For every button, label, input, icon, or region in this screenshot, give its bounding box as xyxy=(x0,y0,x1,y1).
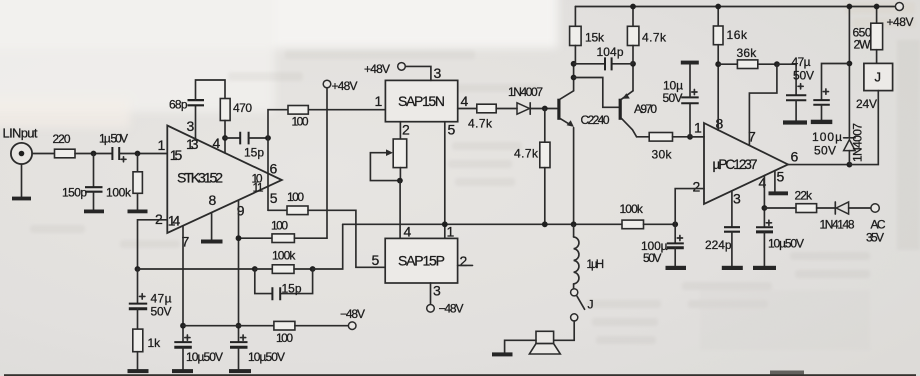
wire pot to SAP15P pin4 xyxy=(399,181,401,239)
ground (10u pin9) xyxy=(229,369,251,373)
svg-text:100k: 100k xyxy=(272,248,296,262)
wire 15k to rail xyxy=(574,7,576,27)
node base C2240 xyxy=(542,106,548,112)
wire jack to R 220 xyxy=(32,153,54,155)
wire C2240 collector up xyxy=(573,64,575,91)
wire 4.7k to diode xyxy=(496,108,517,110)
wire 15p to node C xyxy=(249,137,268,139)
svg-text:1N4007: 1N4007 xyxy=(508,85,543,99)
wire node to 36k xyxy=(718,63,737,65)
svg-text:50V: 50V xyxy=(793,69,814,83)
svg-text:1µH: 1µH xyxy=(587,259,605,271)
capacitor 47u 50V xyxy=(786,55,814,120)
top supply rail xyxy=(575,6,895,8)
node collector/104p xyxy=(571,61,577,67)
resistor 1k xyxy=(133,329,161,352)
capacitor 10u50V (pin4) xyxy=(756,220,804,266)
svg-text:LINput: LINput xyxy=(3,126,38,141)
node pin1 xyxy=(687,134,693,140)
resistor 100 (pin5 out) xyxy=(287,190,308,215)
wire pin3 to 224p xyxy=(731,191,733,227)
svg-text:50V: 50V xyxy=(151,305,172,319)
wire pin9 column xyxy=(238,200,240,342)
svg-text:4: 4 xyxy=(461,93,469,109)
node pot wiper xyxy=(397,178,403,184)
input jack LINput xyxy=(3,126,38,165)
ground (100u relay) xyxy=(811,120,833,124)
svg-text:104p: 104p xyxy=(597,45,624,59)
terminal -48V (STK) xyxy=(340,307,365,330)
pin 5 label (SAP15P) xyxy=(372,252,380,268)
capacitor 100u 50V (relay) xyxy=(812,89,842,158)
ground (10u pin1, above) xyxy=(681,61,699,65)
wire fb row xyxy=(138,268,255,270)
svg-text:15k: 15k xyxy=(585,31,605,45)
op-amp STK3152 xyxy=(155,118,282,249)
svg-text:10µ50V: 10µ50V xyxy=(248,350,285,364)
wire SAP15N pin3 to +48V xyxy=(405,66,431,80)
wire C2240 emitter to bus xyxy=(573,128,575,225)
wire A970 base link xyxy=(574,78,619,108)
svg-text:24V: 24V xyxy=(856,97,877,111)
svg-text:1N4007: 1N4007 xyxy=(851,123,865,162)
wire -48V row xyxy=(183,325,274,327)
svg-text:50V: 50V xyxy=(663,91,683,105)
protection IC uPC1237 xyxy=(693,116,799,207)
wire 150p to ground xyxy=(93,192,95,210)
node fb left xyxy=(135,266,141,272)
svg-text:15: 15 xyxy=(170,147,183,163)
wire uPC pin1 xyxy=(690,136,704,138)
wire cap to STK pin1 xyxy=(119,153,167,155)
ground (224p) xyxy=(722,266,743,270)
resistor 16k xyxy=(713,26,748,45)
svg-text:4.7k: 4.7k xyxy=(642,31,667,45)
speaker xyxy=(529,331,560,354)
svg-text:50V: 50V xyxy=(643,251,662,265)
svg-text:1: 1 xyxy=(375,93,383,109)
svg-text:STK3152: STK3152 xyxy=(177,170,223,186)
svg-text:4: 4 xyxy=(213,135,221,151)
svg-text:1µ 50V: 1µ 50V xyxy=(99,132,128,146)
wire fb to 100k xyxy=(255,268,272,270)
wire relay box to pin6 node xyxy=(849,91,878,165)
ground (150p) xyxy=(84,210,104,214)
svg-text:1N4148: 1N4148 xyxy=(820,218,855,232)
svg-text:100: 100 xyxy=(271,219,288,233)
wire 100u branch xyxy=(822,64,850,100)
terminal AC 35V xyxy=(866,204,886,245)
terminal +48V (SAP15N) xyxy=(364,62,405,76)
wire node B down to 100k xyxy=(137,154,139,172)
ground (100k input) xyxy=(128,210,148,214)
wire SAP15P pin2 stub xyxy=(458,264,473,266)
transistor Q2 A970 xyxy=(620,91,657,137)
capacitor 47u 50V xyxy=(129,292,172,319)
wire diode to C2240 base xyxy=(530,108,557,110)
node pin9 rail xyxy=(236,235,242,241)
node E (bus right) xyxy=(672,221,678,227)
wire pin6 to relay node xyxy=(788,164,849,166)
svg-text:13: 13 xyxy=(186,136,199,152)
wire 650 to relay box xyxy=(876,50,878,64)
wire 100 to -48V terminal xyxy=(295,325,349,327)
wire 4.7k to bus xyxy=(544,168,546,225)
node pin4 xyxy=(222,135,228,141)
wire 100 out to SAP15P pin5 path xyxy=(308,210,385,267)
svg-text:3: 3 xyxy=(187,118,195,134)
pin 3 label (SAP15N) xyxy=(434,65,442,81)
svg-text:SAP15P: SAP15P xyxy=(398,253,445,269)
svg-text:1k: 1k xyxy=(148,336,162,350)
svg-text:68p: 68p xyxy=(169,98,188,112)
svg-text:1: 1 xyxy=(447,224,455,240)
relay J xyxy=(856,63,893,111)
ground (input jack) xyxy=(12,197,31,201)
svg-text:4.7k: 4.7k xyxy=(468,117,493,131)
svg-text:5: 5 xyxy=(270,190,278,206)
svg-text:1: 1 xyxy=(158,137,166,153)
capacitor 68p xyxy=(169,98,204,112)
svg-text:8: 8 xyxy=(716,116,724,132)
wire pin2 path xyxy=(675,189,704,225)
svg-text:µPC1237: µPC1237 xyxy=(713,157,758,172)
svg-text:2: 2 xyxy=(402,122,410,138)
svg-text:4: 4 xyxy=(759,175,767,191)
pin 3 label (SAP15P) xyxy=(433,283,441,299)
node F (36k/47u/pin7) xyxy=(774,61,780,67)
ground (100u bus) xyxy=(666,266,687,270)
svg-text:15p: 15p xyxy=(244,145,264,159)
terminal +48V (STK) xyxy=(323,79,357,93)
resistor 4.7k (driver) xyxy=(468,104,496,130)
svg-text:+48V: +48V xyxy=(887,15,914,29)
capacitor 1u 50V xyxy=(99,132,128,162)
svg-text:3: 3 xyxy=(434,65,442,81)
resistor 100 (-48V) xyxy=(274,321,295,345)
wire pin4 column xyxy=(763,176,765,227)
pin 1 label (SAP15P) xyxy=(447,224,455,240)
node emitter/104p xyxy=(630,61,636,67)
scan line bottom edge xyxy=(4,374,916,376)
capacitor 100u 50V (bus) xyxy=(641,224,684,265)
wire 15k to node xyxy=(574,46,576,64)
wire pin7 column xyxy=(182,226,184,342)
potentiometer (bias) xyxy=(370,139,406,181)
svg-text:−48V: −48V xyxy=(340,307,365,321)
svg-text:35V: 35V xyxy=(866,231,884,245)
wire pin1 node up to 10u xyxy=(689,103,691,137)
capacitor 10u50V (pin9) xyxy=(230,335,285,364)
svg-text:14: 14 xyxy=(168,213,181,229)
svg-text:11: 11 xyxy=(253,181,264,195)
svg-text:C2240: C2240 xyxy=(581,113,610,127)
svg-text:50V: 50V xyxy=(814,144,836,158)
svg-text:5: 5 xyxy=(448,122,456,138)
node D (fb right) xyxy=(310,266,316,272)
node C (output col top) xyxy=(265,135,271,141)
wire 47u branch (pin2/14) xyxy=(137,269,139,303)
capacitor 10u 50V (pin1) xyxy=(663,65,699,106)
node pin9/-48V row xyxy=(236,323,242,329)
svg-text:16k: 16k xyxy=(727,28,749,42)
svg-text:5: 5 xyxy=(777,169,785,185)
wire 220 to cap 1u xyxy=(75,153,112,155)
wire node C down through pins 6,5 xyxy=(267,138,269,210)
svg-text:36k: 36k xyxy=(737,46,758,60)
resistor 100 (top feed) xyxy=(288,106,309,129)
ground (10u pin4) xyxy=(753,266,776,270)
inductor 1uH xyxy=(574,224,604,284)
wire 16k column / pin8 xyxy=(717,7,719,27)
wire 100k to node D xyxy=(294,268,313,270)
wire pin8 to ground xyxy=(211,213,213,240)
node rail/650 xyxy=(874,4,880,10)
wire 47u to 1k xyxy=(137,309,139,329)
node bus/emitter/coil xyxy=(571,221,577,227)
wire speaker to ground xyxy=(505,340,536,352)
svg-text:2: 2 xyxy=(460,253,468,269)
node rail/16k xyxy=(715,4,721,10)
svg-text:3: 3 xyxy=(733,191,741,207)
wire 10u to ground xyxy=(238,347,240,369)
wire SAP15P pin3 to -48V xyxy=(430,283,432,305)
svg-text:J: J xyxy=(588,298,594,312)
svg-text:100k: 100k xyxy=(620,202,644,216)
switch J xyxy=(571,284,594,321)
svg-text:+48V: +48V xyxy=(332,79,358,93)
wire node A down to 150p xyxy=(93,154,95,188)
svg-text:6: 6 xyxy=(270,161,278,177)
pin 5 label (SAP15N) xyxy=(448,122,456,138)
capacitor 10u50V (pin7) xyxy=(174,335,223,364)
ground (speaker) xyxy=(492,352,513,356)
node collector/A970 base tap xyxy=(571,75,577,81)
wire A970 emitter up xyxy=(632,64,634,91)
wire pin9 row to 100 xyxy=(239,237,273,239)
capacitor 15p (feedback) loop xyxy=(255,269,313,300)
svg-text:3: 3 xyxy=(433,283,441,299)
node A (150p tap) xyxy=(91,151,97,157)
output bus xyxy=(343,223,622,225)
resistor 22k xyxy=(795,189,817,213)
resistor 30k xyxy=(649,133,672,162)
resistor 470 xyxy=(220,99,252,121)
capacitor 104p xyxy=(574,45,633,70)
svg-text:47µ: 47µ xyxy=(151,292,172,306)
wire 10u to ground xyxy=(182,347,184,369)
ground (1k) xyxy=(128,369,149,373)
svg-text:8: 8 xyxy=(209,192,217,208)
wire SAP15N pin4 to 4.7k xyxy=(458,108,477,110)
wire pin7 path xyxy=(749,64,777,145)
svg-text:100: 100 xyxy=(292,115,309,129)
wire node F to 47u xyxy=(777,64,796,95)
svg-text:2W: 2W xyxy=(854,38,872,52)
capacitor 15p (pin4) xyxy=(240,132,264,160)
wire 16k to pin8 xyxy=(717,45,719,131)
wire 4.7k to node xyxy=(632,46,634,64)
resistor 650 2W xyxy=(853,23,883,51)
diode 1N4007 (bias) xyxy=(508,85,543,114)
wire 100 to +48V rail xyxy=(294,237,327,239)
svg-text:10µ50V: 10µ50V xyxy=(768,237,804,251)
node bus/SAP pins xyxy=(442,221,448,227)
wire pin3 to 68p xyxy=(195,106,197,140)
svg-text:SAP15N: SAP15N xyxy=(398,93,445,109)
wire 100k to node E xyxy=(644,223,676,225)
diode 1N4007 (relay) xyxy=(844,123,865,165)
wire pin5 stub to ground xyxy=(774,171,776,192)
svg-text:220: 220 xyxy=(53,132,71,146)
svg-text:30k: 30k xyxy=(652,148,673,162)
svg-text:1: 1 xyxy=(694,120,702,136)
wire relay column (rail to diode) xyxy=(848,7,850,139)
wire 22k to diode xyxy=(817,207,836,209)
resistor 220 xyxy=(53,132,76,158)
wire 650 to rail xyxy=(876,7,878,24)
svg-text:100: 100 xyxy=(276,331,293,345)
pin 4 label (SAP15P) xyxy=(404,224,412,240)
wire pin4 stub xyxy=(224,138,226,153)
wire node C up and right (100 feed) xyxy=(268,110,288,138)
capacitor 224p xyxy=(705,227,740,266)
wire 4.7k vertical branch xyxy=(544,109,546,143)
svg-text:100: 100 xyxy=(287,190,304,204)
wire 30k to uPC pin1 xyxy=(673,136,705,138)
node pin7/-48V row xyxy=(180,323,186,329)
wire switch to speaker xyxy=(554,321,575,340)
wire 22k row xyxy=(764,207,796,209)
svg-text:6: 6 xyxy=(791,149,799,165)
svg-text:+48V: +48V xyxy=(364,62,390,76)
white scan areas top-left xyxy=(0,0,558,128)
svg-text:10µ50V: 10µ50V xyxy=(186,350,223,364)
transistor Q1 C2240 xyxy=(559,91,610,127)
svg-text:47µ: 47µ xyxy=(792,55,811,69)
capacitor 150p xyxy=(62,186,103,200)
resistor 4.7k (emitter) xyxy=(514,142,550,167)
wire SAP15N pin5 to bus xyxy=(444,122,446,239)
svg-text:100µ: 100µ xyxy=(812,130,842,144)
wire 68p feedback loop top xyxy=(196,80,226,100)
svg-text:4.7k: 4.7k xyxy=(514,147,539,161)
svg-text:15p: 15p xyxy=(282,281,302,295)
svg-text:22k: 22k xyxy=(795,189,814,203)
node 16k/36k xyxy=(715,61,721,67)
wire node to 15p xyxy=(225,137,240,139)
resistor 100 (pin9 rail) xyxy=(271,219,294,243)
svg-text:2: 2 xyxy=(693,179,701,195)
svg-text:5: 5 xyxy=(372,252,380,268)
wire 100 to SAP15N pin1 (crosses +48V rail) xyxy=(308,109,385,111)
wire A970 collector to 30k xyxy=(637,136,650,138)
resistor 100k (bus) xyxy=(620,202,644,229)
terminal -48V (SAP15P) xyxy=(427,302,464,316)
wire 36k to node F xyxy=(758,63,777,65)
wire node D to bus riser xyxy=(313,224,343,269)
pin 2 label (SAP15P) xyxy=(460,253,468,269)
svg-text:A970: A970 xyxy=(634,102,657,116)
node fb mid xyxy=(252,266,258,272)
ground (pin8) xyxy=(201,240,223,244)
svg-text:100k: 100k xyxy=(106,186,132,200)
pin 2 label (SAP15N) xyxy=(402,122,410,138)
node relay xyxy=(847,162,853,168)
wire jack to ground xyxy=(21,164,23,197)
ground (pin5) xyxy=(769,191,789,195)
wire diode to AC terminal xyxy=(849,207,872,209)
node 100u tap xyxy=(847,61,853,67)
wire pin2/14 to fb node xyxy=(138,220,167,269)
resistor 15k xyxy=(570,26,605,45)
wire SAP15N pin2 to pot xyxy=(399,122,401,139)
node pin4/22k xyxy=(762,205,768,211)
power stage SAP15P xyxy=(385,238,457,283)
diode 1N4148 xyxy=(820,202,855,232)
wire 1k to ground xyxy=(137,352,139,370)
wire to 100 (pin5 out) xyxy=(268,209,287,211)
node B (100k tap) xyxy=(135,151,141,157)
ground (10u pin7) xyxy=(172,369,193,373)
node rail/4.7k xyxy=(630,4,636,10)
svg-text:4: 4 xyxy=(404,224,412,240)
ground (47u) xyxy=(783,120,807,124)
terminal +48V (top right) xyxy=(887,3,914,30)
node rail/relay col xyxy=(847,4,853,10)
pin 4 label (SAP15N) xyxy=(461,93,469,109)
svg-text:AC: AC xyxy=(871,218,886,232)
resistor 36k xyxy=(737,46,758,69)
resistor 100k (input) xyxy=(106,172,142,200)
wire 4.7k top to rail xyxy=(632,7,634,27)
resistor 4.7k (load) xyxy=(627,26,667,45)
svg-text:470: 470 xyxy=(233,101,252,115)
+48V rail (STK) xyxy=(326,88,328,239)
svg-text:−48V: −48V xyxy=(439,302,464,316)
svg-text:150p: 150p xyxy=(62,186,87,200)
wire 470 to pin4 node xyxy=(224,121,226,139)
driver SAP15N xyxy=(385,80,457,121)
node bus/4.7k xyxy=(542,221,548,227)
pin 1 label (SAP15N) xyxy=(375,93,383,109)
svg-text:J: J xyxy=(875,70,882,85)
wire 100k to ground xyxy=(137,193,139,209)
resistor 100k (feedback) xyxy=(272,248,296,273)
svg-text:224p: 224p xyxy=(705,238,732,252)
